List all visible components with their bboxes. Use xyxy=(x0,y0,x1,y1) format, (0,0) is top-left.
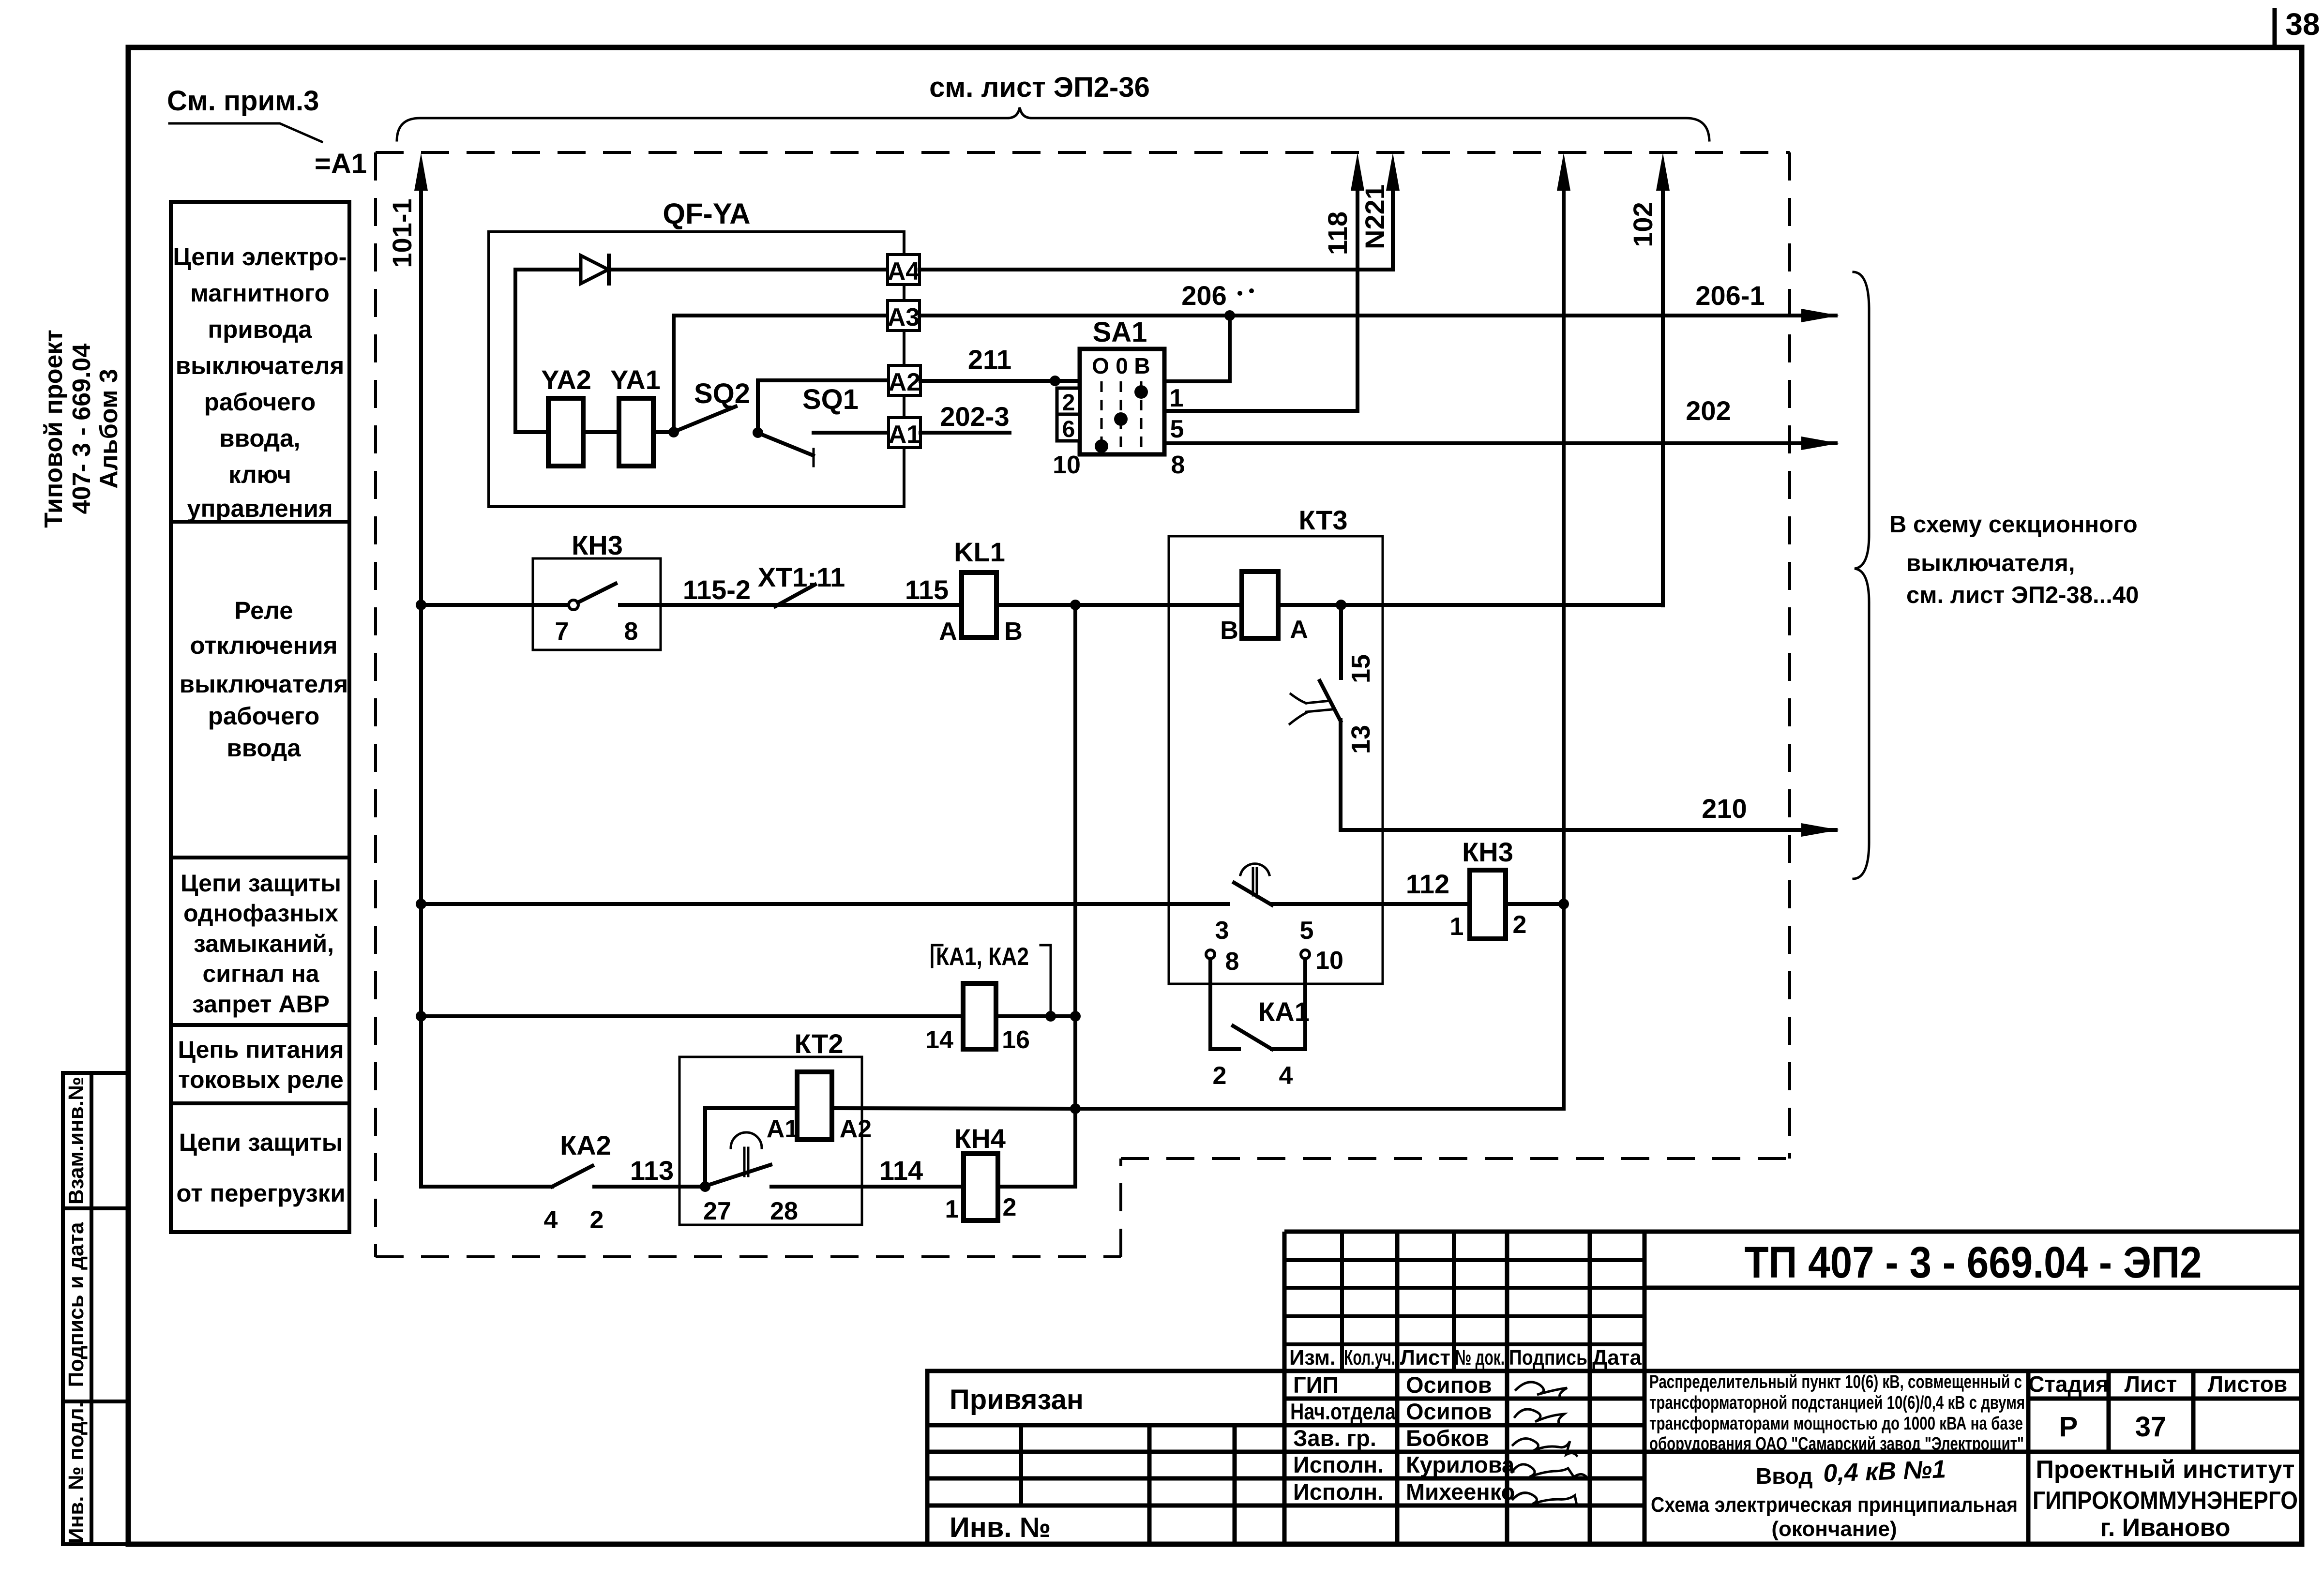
svg-text:3: 3 xyxy=(1215,917,1229,945)
svg-text:37: 37 xyxy=(2135,1411,2167,1443)
svg-text:0: 0 xyxy=(1116,353,1128,378)
wire 114 xyxy=(771,1185,964,1189)
svg-text:0,4 кВ №1: 0,4 кВ №1 xyxy=(1823,1455,1946,1488)
svg-text:Изм.: Изм. xyxy=(1289,1346,1336,1370)
svg-text:Взам.инв.№: Взам.инв.№ xyxy=(64,1077,88,1205)
wire A4 row xyxy=(515,268,888,271)
relay contact box КН3 (7-8) xyxy=(533,558,661,650)
coil КТ3 xyxy=(1242,572,1278,638)
bus 115 row (left section) xyxy=(421,603,533,607)
svg-text:выключателя: выключателя xyxy=(176,352,345,379)
svg-text:102: 102 xyxy=(1628,202,1658,247)
label: реле отключения xyxy=(180,597,348,762)
svg-text:Кол.уч.: Кол.уч. xyxy=(1344,1346,1395,1370)
svg-text:Лист: Лист xyxy=(2125,1371,2177,1397)
wire 101-1 vertical xyxy=(419,189,423,1187)
svg-text:1: 1 xyxy=(945,1195,959,1223)
contact КТ3 3-5 with time delay xyxy=(1240,864,1269,875)
svg-text:Курилова: Курилова xyxy=(1406,1452,1515,1477)
title block header labels xyxy=(1289,1346,1642,1370)
svg-text:SA1: SA1 xyxy=(1093,316,1147,348)
svg-text:Стадия: Стадия xyxy=(2028,1371,2109,1397)
node SQ1 pivot xyxy=(753,427,763,438)
svg-text:8: 8 xyxy=(1225,948,1239,976)
svg-text:A2: A2 xyxy=(889,368,920,396)
svg-text:г. Иваново: г. Иваново xyxy=(2100,1514,2230,1542)
bottom bus КА2 row xyxy=(421,1185,552,1189)
relay coil KL1 xyxy=(962,572,996,637)
svg-text:Типовой проект: Типовой проект xyxy=(40,330,68,528)
coil YA2 xyxy=(548,398,583,466)
svg-text:Ввод: Ввод xyxy=(1756,1463,1813,1489)
svg-text:Дата: Дата xyxy=(1592,1346,1642,1370)
wire N221 vertical xyxy=(1391,189,1395,270)
label: цепи защиты однофазных замыканий xyxy=(181,870,341,1018)
svg-text:Цепь питания: Цепь питания xyxy=(178,1036,344,1063)
terminal A1 xyxy=(889,418,920,448)
wire A4 to N221 xyxy=(920,268,1393,271)
svg-text:Исполн.: Исполн. xyxy=(1293,1452,1384,1477)
wire 102 vertical xyxy=(1661,189,1665,605)
svg-text:ГИП: ГИП xyxy=(1293,1372,1339,1398)
svg-text:отключения: отключения xyxy=(190,632,338,659)
project description xyxy=(1649,1372,2025,1454)
svg-text:КА2: КА2 xyxy=(560,1130,611,1160)
стадия лист листов xyxy=(2028,1371,2287,1397)
svg-text:КН4: КН4 xyxy=(954,1123,1006,1154)
svg-text:Инв. №: Инв. № xyxy=(950,1512,1051,1543)
svg-text:Цепи защиты: Цепи защиты xyxy=(181,870,341,897)
wire A3 row xyxy=(674,314,888,317)
contact КТ2 27-28 with time delay xyxy=(731,1132,762,1148)
svg-text:206: 206 xyxy=(1181,280,1226,311)
svg-text:ввода,: ввода, xyxy=(219,424,300,452)
svg-text:113: 113 xyxy=(630,1155,674,1186)
contact КА1 (2-4) xyxy=(1208,959,1212,1049)
svg-text:Нач.отдела: Нач.отдела xyxy=(1290,1399,1396,1424)
signature Нач.отдела xyxy=(1515,1409,1564,1424)
svg-text:206-1: 206-1 xyxy=(1695,280,1765,311)
signature Курилова xyxy=(1512,1464,1585,1477)
bus to section riser xyxy=(1075,1107,1564,1111)
SA1 contact columns xyxy=(1101,381,1141,450)
svg-text:16: 16 xyxy=(1002,1026,1030,1054)
svg-text:ТП 407 - 3 - 669.04 - ЭП2: ТП 407 - 3 - 669.04 - ЭП2 xyxy=(1745,1238,2202,1287)
wire КН4 to riser xyxy=(998,1185,1075,1189)
svg-text:A4: A4 xyxy=(888,257,920,286)
svg-text:101-1: 101-1 xyxy=(387,198,417,268)
svg-text:Михеенко: Михеенко xyxy=(1406,1479,1515,1505)
contact SQ1 xyxy=(761,434,813,455)
svg-text:КН3: КН3 xyxy=(572,530,623,560)
svg-text:2: 2 xyxy=(1513,911,1527,939)
node KL1 bus / drop xyxy=(1070,600,1081,610)
svg-text:Альбом 3: Альбом 3 xyxy=(95,369,123,489)
svg-text:см. лист ЭП2-36: см. лист ЭП2-36 xyxy=(929,72,1150,103)
top reference brace see sheet ЭП2-36 xyxy=(397,107,1709,140)
wire КТ3 coil to 102 riser xyxy=(1278,603,1663,607)
svg-text:Р: Р xyxy=(2059,1411,2078,1443)
terminal A4 xyxy=(888,255,920,285)
svg-text:Лист: Лист xyxy=(1400,1346,1450,1370)
left margin stamp text xyxy=(40,330,123,528)
svg-text:Реле: Реле xyxy=(234,597,293,624)
svg-text:трансформаторной подстанцией 1: трансформаторной подстанцией 10(6)/0,4 к… xyxy=(1649,1393,2025,1413)
svg-text:КА1, КА2: КА1, КА2 xyxy=(936,943,1029,971)
signature Зав.гр. xyxy=(1513,1439,1577,1456)
svg-text:407- 3 - 669.04: 407- 3 - 669.04 xyxy=(68,344,96,514)
svg-text:В схему секционного: В схему секционного xyxy=(1889,512,2138,538)
bus current relays row xyxy=(421,1014,963,1018)
svg-text:7: 7 xyxy=(555,617,569,646)
svg-text:8: 8 xyxy=(1171,451,1185,479)
relay coil КН3 (1-2) xyxy=(1470,870,1506,939)
svg-text:N221: N221 xyxy=(1359,184,1390,249)
title block xyxy=(927,1232,2302,1544)
node on 211 at SA1 xyxy=(1050,376,1060,386)
svg-text:KL1: KL1 xyxy=(954,537,1005,567)
node SQ2 pivot xyxy=(668,427,679,437)
svg-text:токовых реле: токовых реле xyxy=(178,1066,344,1093)
svg-text:SQ1: SQ1 xyxy=(802,384,859,415)
svg-text:115-2: 115-2 xyxy=(683,574,751,605)
node 15 drop xyxy=(1336,600,1346,610)
wire A1 row xyxy=(814,431,889,435)
svg-text:В: В xyxy=(1220,617,1238,645)
svg-text:QF-YA: QF-YA xyxy=(663,197,750,230)
svg-text:магнитного: магнитного xyxy=(190,279,329,307)
svg-text:Исполн.: Исполн. xyxy=(1293,1479,1384,1505)
svg-text:привода: привода xyxy=(208,316,312,343)
svg-text:10: 10 xyxy=(1315,947,1343,975)
svg-text:15: 15 xyxy=(1346,654,1375,683)
svg-text:5: 5 xyxy=(1300,917,1314,945)
terminal A3 xyxy=(888,301,920,331)
svg-text:Бобков: Бобков xyxy=(1406,1425,1489,1451)
relay coil КН4 xyxy=(964,1154,998,1220)
svg-text:О: О xyxy=(1092,353,1109,378)
svg-text:выключателя: выключателя xyxy=(180,670,348,698)
svg-text:оборудования ОАО "Самарский за: оборудования ОАО "Самарский завод "Элект… xyxy=(1649,1434,2024,1454)
svg-text:B: B xyxy=(1004,617,1023,646)
КТ3 terminals 8 and 10 xyxy=(1206,950,1215,959)
signature Михеенко xyxy=(1513,1493,1577,1505)
svg-text:В: В xyxy=(1134,353,1150,378)
svg-text:Распределительный пункт 10(6): Распределительный пункт 10(6) кВ, совмещ… xyxy=(1649,1372,2022,1392)
node 101-1 / bus junction xyxy=(416,600,426,610)
svg-text:112: 112 xyxy=(1406,869,1449,899)
svg-text:Листов: Листов xyxy=(2208,1371,2287,1397)
svg-text:КА1: КА1 xyxy=(1258,996,1310,1027)
contact КТ3 15-13 xyxy=(1339,605,1343,678)
coil КТ2 xyxy=(797,1072,832,1140)
node bus112 to riser xyxy=(1558,899,1569,909)
leader line xyxy=(169,123,322,142)
svg-text:выключателя,: выключателя, xyxy=(1906,550,2075,576)
svg-text:Привязан: Привязан xyxy=(950,1384,1084,1415)
svg-text:YA2: YA2 xyxy=(541,364,591,395)
svg-text:211: 211 xyxy=(968,344,1011,375)
svg-text:YA1: YA1 xyxy=(610,364,661,395)
svg-text:5: 5 xyxy=(1170,415,1184,443)
svg-text:Инв. № подл.: Инв. № подл. xyxy=(64,1402,88,1543)
svg-text:трансформаторами мощностью до: трансформаторами мощностью до 1000 кВА н… xyxy=(1649,1414,2023,1434)
svg-text:А2: А2 xyxy=(840,1115,872,1143)
svg-text:2: 2 xyxy=(590,1206,604,1234)
wire 118 vertical xyxy=(1356,189,1359,411)
svg-text:2: 2 xyxy=(1003,1193,1017,1221)
svg-text:№ док.: № док. xyxy=(1455,1346,1505,1370)
svg-text:от перегрузки: от перегрузки xyxy=(176,1179,345,1207)
svg-text:1: 1 xyxy=(1450,913,1464,941)
svg-text:КТ3: КТ3 xyxy=(1299,505,1348,535)
svg-text:202: 202 xyxy=(1686,395,1731,426)
unlabeled riser to section switch xyxy=(1562,189,1566,1109)
bus 202 xyxy=(1164,441,1836,445)
coil КА1,КА2 xyxy=(963,983,996,1049)
wire КТ2 coil right to bus xyxy=(832,1108,1075,1109)
svg-text:(окончание): (окончание) xyxy=(1771,1517,1897,1541)
SA1 contact state dots xyxy=(1134,385,1148,399)
svg-text:A1: A1 xyxy=(889,421,920,449)
svg-text:КТ2: КТ2 xyxy=(795,1028,844,1059)
signature ГИП xyxy=(1516,1382,1567,1398)
svg-text:Проектный институт: Проектный институт xyxy=(2036,1456,2294,1484)
svg-text:SQ2: SQ2 xyxy=(694,378,750,409)
svg-text:1: 1 xyxy=(1170,384,1184,412)
wire A2 drop to SQ1 xyxy=(756,380,760,433)
svg-text:28: 28 xyxy=(770,1197,798,1225)
svg-text:замыканий,: замыканий, xyxy=(194,930,334,957)
wire 211 xyxy=(920,379,1080,383)
riser from KL1 node down xyxy=(1073,605,1077,1187)
svg-text:см. лист ЭП2-38...40: см. лист ЭП2-38...40 xyxy=(1906,582,2139,608)
svg-text:однофазных: однофазных xyxy=(183,900,338,927)
diode VD xyxy=(581,256,608,284)
wire coil rail xyxy=(515,430,548,434)
bottom-left filing strips xyxy=(63,1073,128,1544)
svg-text:210: 210 xyxy=(1702,793,1747,824)
left function-row label boxes xyxy=(171,202,349,1232)
svg-text:КН3: КН3 xyxy=(1462,837,1513,867)
svg-text:14: 14 xyxy=(925,1026,953,1054)
note В схему секционного выключателя xyxy=(1889,512,2139,608)
svg-text:4: 4 xyxy=(544,1206,558,1234)
wire SA1 pin1 to 118 xyxy=(1164,409,1358,413)
svg-text:A3: A3 xyxy=(888,303,920,331)
svg-text:38: 38 xyxy=(2285,7,2320,42)
svg-text:рабочего: рабочего xyxy=(204,388,316,416)
svg-text:A: A xyxy=(939,617,957,646)
node КТ2 pivot xyxy=(700,1181,710,1192)
svg-text:XT1:11: XT1:11 xyxy=(758,562,845,592)
svg-text:=A1: =A1 xyxy=(315,148,367,180)
svg-text:ГИПРОКОММУНЭНЕРГО: ГИПРОКОММУНЭНЕРГО xyxy=(2033,1487,2298,1515)
wire КТ2 coil left xyxy=(705,1108,797,1187)
SA1 terminal box 6 xyxy=(1057,414,1080,441)
breaker drive block QF-YA xyxy=(489,232,904,507)
svg-text:Цепи защиты: Цепи защиты xyxy=(179,1129,343,1156)
label: цепи защиты от перегрузки xyxy=(176,1129,345,1207)
node on 206 bus xyxy=(1224,310,1235,321)
svg-text:2: 2 xyxy=(1213,1062,1227,1090)
wire SA1 top to 206 bus xyxy=(1164,316,1230,381)
SA1 terminal box 2 xyxy=(1057,388,1080,414)
terminal A2 xyxy=(889,365,920,395)
svg-text:115: 115 xyxy=(905,574,949,605)
dashed boundary =A1 xyxy=(376,152,1790,1257)
svg-text:Схема электрическая принципиал: Схема электрическая принципиальная xyxy=(1651,1493,2018,1517)
svg-text:См. прим.3: См. прим.3 xyxy=(167,85,319,117)
svg-text:2: 2 xyxy=(1062,390,1075,416)
wire 113 xyxy=(594,1185,705,1189)
svg-text:Осипов: Осипов xyxy=(1406,1372,1492,1398)
svg-text:8: 8 xyxy=(624,617,638,646)
sheet number tick xyxy=(2273,8,2277,47)
svg-text:управления: управления xyxy=(187,495,332,522)
bus 112 row xyxy=(421,902,1228,906)
svg-text:118: 118 xyxy=(1322,211,1353,255)
svg-text:4: 4 xyxy=(1279,1062,1293,1090)
svg-text:А1: А1 xyxy=(767,1115,799,1143)
bus 206 / 206-1 xyxy=(920,314,1836,317)
svg-text:13: 13 xyxy=(1346,725,1375,754)
svg-text:сигнал на: сигнал на xyxy=(202,960,319,987)
svg-text:Осипов: Осипов xyxy=(1406,1399,1492,1424)
label: цепь питания токовых реле xyxy=(178,1036,344,1093)
wire 202-3 stub xyxy=(920,431,1010,435)
svg-text:6: 6 xyxy=(1062,417,1075,442)
wire KL1 to KT3 xyxy=(996,603,1242,607)
svg-text:Подпись и дата: Подпись и дата xyxy=(64,1222,88,1387)
svg-text:А: А xyxy=(1290,616,1308,644)
svg-text:Подпись: Подпись xyxy=(1509,1346,1587,1370)
staff position labels xyxy=(1290,1372,1515,1505)
svg-text:Зав. гр.: Зав. гр. xyxy=(1293,1425,1376,1451)
svg-text:Цепи электро-: Цепи электро- xyxy=(173,243,347,271)
svg-text:202-3: 202-3 xyxy=(940,401,1009,432)
label: цепи электромагнитного привода xyxy=(173,243,347,522)
svg-text:рабочего: рабочего xyxy=(208,702,320,730)
svg-text:запрет АВР: запрет АВР xyxy=(192,991,330,1018)
contact КА2 (4-2) xyxy=(552,1166,592,1187)
wire 210 xyxy=(1341,828,1836,832)
svg-text:114: 114 xyxy=(879,1155,923,1186)
svg-text:ввода: ввода xyxy=(226,734,301,762)
svg-text:ключ: ключ xyxy=(228,461,291,488)
contact SQ2 xyxy=(677,407,736,431)
svg-text:27: 27 xyxy=(703,1197,731,1225)
right brace to section switch xyxy=(1854,272,1869,879)
svg-text:10: 10 xyxy=(1053,451,1081,479)
coil YA1 xyxy=(619,398,653,466)
